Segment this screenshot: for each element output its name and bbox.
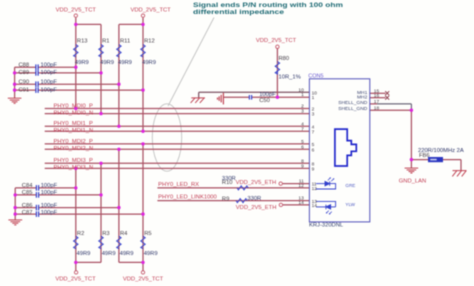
svg-text:14: 14 (312, 203, 318, 209)
svg-text:R5: R5 (144, 231, 151, 237)
svg-text:PHY0_MDI0_P: PHY0_MDI0_P (54, 103, 93, 109)
svg-text:VDD_2V5_TCT: VDD_2V5_TCT (56, 8, 97, 14)
svg-text:100pF: 100pF (41, 183, 58, 189)
svg-text:1: 1 (312, 95, 315, 101)
svg-text:2: 2 (312, 107, 315, 113)
svg-text:R13: R13 (77, 38, 88, 44)
svg-text:3: 3 (301, 109, 304, 115)
svg-text:R1: R1 (102, 38, 109, 44)
svg-text:49R9: 49R9 (118, 60, 132, 66)
svg-text:6: 6 (301, 144, 304, 150)
svg-text:VDD_2V5_TCT: VDD_2V5_TCT (130, 8, 171, 14)
svg-text:5: 5 (312, 142, 315, 148)
svg-text:PHY0_MDI1_P: PHY0_MDI1_P (54, 121, 93, 127)
svg-text:KRJ-320DNL: KRJ-320DNL (309, 223, 344, 229)
svg-text:PHY0_LED_LINK1000: PHY0_LED_LINK1000 (158, 195, 217, 201)
svg-text:PHY0_MDI0_N: PHY0_MDI0_N (54, 110, 94, 116)
svg-text:PHY0_MDI3_P: PHY0_MDI3_P (54, 158, 93, 164)
svg-text:49R9: 49R9 (144, 251, 158, 257)
svg-text:9: 9 (301, 163, 304, 169)
svg-text:C85: C85 (22, 190, 33, 196)
svg-text:SHELL_GND: SHELL_GND (338, 100, 368, 106)
svg-text:7: 7 (301, 126, 304, 132)
svg-text:49R9: 49R9 (120, 251, 134, 257)
svg-text:49R9: 49R9 (102, 251, 116, 257)
svg-text:12: 12 (298, 183, 304, 189)
svg-text:differential impedance: differential impedance (193, 9, 284, 16)
svg-text:R11: R11 (120, 38, 130, 44)
svg-text:R2: R2 (77, 231, 84, 237)
svg-text:330R: 330R (222, 176, 236, 182)
svg-text:C84: C84 (22, 183, 33, 189)
svg-text:100pF: 100pF (41, 190, 58, 196)
svg-text:49R9: 49R9 (142, 60, 156, 66)
svg-text:6: 6 (312, 147, 315, 153)
svg-text:VDD_2V5_ETH: VDD_2V5_ETH (236, 205, 277, 211)
svg-text:3: 3 (312, 112, 315, 118)
svg-text:GND_LAN: GND_LAN (399, 179, 426, 185)
svg-text:330R: 330R (247, 196, 261, 202)
svg-text:17: 17 (374, 99, 380, 105)
svg-text:FB6: FB6 (419, 153, 430, 159)
svg-text:C86: C86 (22, 203, 33, 209)
svg-text:VDD_2V5_ETH: VDD_2V5_ETH (236, 180, 277, 186)
svg-text:R80: R80 (279, 56, 290, 62)
svg-text:C89: C89 (19, 70, 30, 76)
svg-text:49R9: 49R9 (100, 60, 114, 66)
svg-text:R9: R9 (222, 196, 229, 202)
svg-text:1: 1 (301, 92, 304, 98)
svg-text:100pF: 100pF (41, 70, 58, 76)
svg-text:14: 14 (298, 200, 304, 206)
svg-text:VDD_2V5_TCT: VDD_2V5_TCT (256, 38, 297, 44)
svg-text:PHY0_MDI3_N: PHY0_MDI3_N (54, 165, 94, 171)
svg-text:VDD_2V5_TCT: VDD_2V5_TCT (55, 277, 96, 283)
svg-text:16: 16 (374, 93, 380, 99)
svg-text:R12: R12 (144, 38, 155, 44)
svg-text:100pF: 100pF (41, 87, 58, 93)
svg-text:100pF: 100pF (259, 92, 276, 98)
svg-text:PHY0_LED_RX: PHY0_LED_RX (158, 182, 199, 188)
svg-text:220R/100MHz 2A: 220R/100MHz 2A (418, 148, 464, 154)
svg-text:GRE: GRE (345, 183, 355, 188)
svg-text:12: 12 (312, 186, 318, 192)
svg-text:PHY0_MDI2_N: PHY0_MDI2_N (54, 146, 94, 152)
svg-text:MH2: MH2 (357, 95, 368, 101)
svg-text:VDD_2V5_TCT: VDD_2V5_TCT (123, 277, 164, 283)
svg-text:100pF: 100pF (41, 80, 58, 86)
svg-text:100pF: 100pF (41, 210, 58, 216)
svg-text:YLW: YLW (345, 202, 355, 207)
svg-text:8: 8 (312, 161, 315, 167)
svg-text:C50: C50 (259, 98, 270, 104)
svg-text:C90: C90 (19, 80, 30, 86)
svg-text:49R9: 49R9 (75, 60, 89, 66)
svg-text:100pF: 100pF (41, 203, 58, 209)
svg-text:49R9: 49R9 (77, 251, 91, 257)
svg-text:9: 9 (312, 166, 315, 172)
svg-text:100pF: 100pF (41, 63, 58, 69)
svg-text:18: 18 (374, 105, 380, 111)
svg-text:7: 7 (312, 129, 315, 135)
svg-text:C87: C87 (22, 210, 33, 216)
svg-text:R4: R4 (120, 231, 128, 237)
svg-text:5: 5 (301, 139, 304, 145)
svg-text:SHELL_GND: SHELL_GND (338, 106, 368, 112)
svg-text:8: 8 (301, 158, 304, 164)
svg-text:PHY0_MDI1_N: PHY0_MDI1_N (54, 128, 94, 134)
svg-text:2: 2 (301, 104, 304, 110)
svg-text:CON5: CON5 (308, 74, 323, 80)
svg-text:C88: C88 (19, 63, 30, 69)
svg-text:PHY0_MDI2_P: PHY0_MDI2_P (54, 139, 93, 145)
svg-text:C91: C91 (19, 87, 30, 93)
svg-text:R3: R3 (102, 231, 109, 237)
svg-text:10R_1%: 10R_1% (279, 74, 301, 80)
